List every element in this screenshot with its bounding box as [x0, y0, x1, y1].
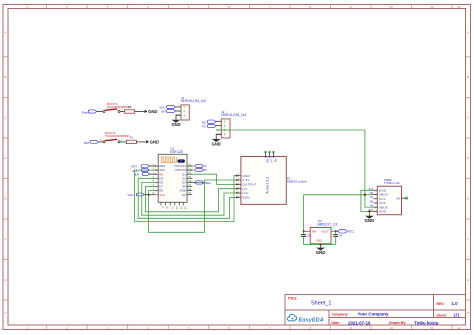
capacitor C4 [333, 231, 342, 244]
connector J2 HDR-M-2.54_1x4 [216, 110, 246, 138]
svg-text:F: F [5, 237, 7, 241]
junction dot VOUT [335, 230, 337, 232]
svg-text:VOUT: VOUT [321, 229, 329, 233]
svg-text:GND: GND [316, 239, 322, 243]
svg-text:12: 12 [457, 326, 461, 330]
svg-text:TS434303000550R: TS434303000550R [106, 105, 130, 109]
svg-text:10: 10 [390, 5, 394, 9]
junction dot VBUS [364, 194, 366, 196]
svg-text:AMS1117_3.3: AMS1117_3.3 [318, 223, 338, 227]
svg-text:AD8232 module: AD8232 module [287, 180, 308, 184]
svg-text:12: 12 [457, 5, 461, 9]
svg-text:REV:: REV: [437, 302, 445, 306]
resistor R2 [125, 106, 135, 113]
net flag VCC (ESP) [127, 193, 155, 197]
company cell [332, 312, 389, 317]
wire J1 pin3 to ground [176, 115, 181, 119]
wire VCC rail to 3.3V [149, 180, 237, 232]
svg-text:VCC: VCC [347, 230, 355, 234]
svg-text:Flash: Flash [203, 181, 211, 185]
ground GND (flag right) [146, 139, 159, 144]
wire USB GND loop [361, 190, 374, 211]
svg-text:E: E [467, 197, 469, 201]
wire IO16 rail [138, 178, 236, 218]
net flag TX [202, 124, 216, 128]
svg-text:B: B [4, 75, 6, 79]
svg-text:2021-07-16: 2021-07-16 [348, 320, 371, 325]
net flag ADC (ESP) [132, 169, 149, 173]
svg-text:EasyEDA: EasyEDA [299, 317, 324, 323]
svg-text:GND: GND [316, 250, 326, 255]
svg-text:SH: SH [396, 197, 400, 200]
wire [120, 111, 125, 113]
svg-text:RX: RX [203, 168, 207, 172]
wire [120, 141, 126, 143]
ground below regulator [316, 246, 326, 255]
svg-text:Company:: Company: [332, 313, 349, 317]
svg-text:1.0: 1.0 [452, 301, 459, 306]
net flag VCC (output) [338, 230, 355, 234]
module P1 AD8232 [236, 151, 308, 204]
svg-text:Your Company: Your Company [358, 312, 389, 317]
wire [97, 111, 103, 113]
svg-text:EN: EN [135, 173, 139, 177]
sheet cell [437, 313, 461, 318]
junction dot VIN [303, 230, 305, 232]
svg-text:HDR-M-2.54_1x3: HDR-M-2.54_1x3 [181, 99, 206, 103]
svg-text:11: 11 [430, 5, 433, 9]
svg-text:LA: LA [270, 159, 274, 163]
capacitor C5 [301, 231, 310, 244]
title text [288, 296, 332, 306]
svg-text:D0: D0 [182, 193, 186, 197]
svg-text:Sheet:: Sheet: [437, 314, 447, 318]
ground GND (flag right) [145, 109, 158, 114]
svg-text:GND: GND [150, 139, 159, 144]
EasyEDA logo [288, 314, 324, 323]
net flag EN [162, 109, 176, 113]
wire [135, 111, 145, 113]
switch BOOT2 [100, 102, 130, 112]
svg-text:HDR-M-2.54_1x4: HDR-M-2.54_1x4 [221, 113, 246, 117]
svg-text:VCC: VCC [159, 193, 165, 197]
wire VOUT [331, 230, 338, 232]
net flag RX [194, 168, 207, 172]
svg-text:TITLE:: TITLE: [288, 296, 298, 300]
title block [285, 295, 466, 326]
svg-text:TS434303000550R: TS434303000550R [105, 134, 129, 138]
regulator U3 AMS1117_3.3 [310, 219, 337, 244]
wire staircase ESP to AD8232 OUTPUT [192, 174, 236, 184]
svg-text:SDN: SDN [242, 195, 249, 199]
wire USB VBUS link [365, 195, 374, 207]
junction dot VCC [148, 194, 150, 196]
svg-text:Tinku kosta: Tinku kosta [414, 320, 439, 325]
module U1 ESP-12E [153, 147, 193, 210]
switch BOOT1 [100, 131, 129, 143]
net flag VCC [159, 105, 175, 109]
net flag Flash [192, 181, 211, 185]
net flag TX [194, 164, 206, 168]
wire ground rail under regulator [304, 244, 336, 247]
svg-text:GND: GND [365, 218, 375, 223]
ground below J2 [212, 138, 221, 147]
svg-text:TYPE-C-AF: TYPE-C-AF [384, 181, 400, 185]
svg-text:Date:: Date: [332, 321, 341, 325]
pin end dots [155, 165, 193, 183]
net flag RST (ESP) [131, 165, 155, 169]
svg-text:11: 11 [430, 326, 433, 330]
svg-text:RL: RL [274, 159, 278, 163]
svg-text:Drawn By:: Drawn By: [389, 321, 406, 325]
svg-text:H: H [467, 311, 469, 315]
connector J1 HDR-M-2.54_1x3 [176, 96, 207, 120]
wire VBUS feed (USB to VIN) [304, 195, 365, 232]
net flag Flash [82, 110, 97, 114]
svg-text:1/1: 1/1 [454, 313, 461, 318]
wire J2 pin4 to ground [216, 134, 221, 138]
wire [136, 141, 146, 143]
svg-text:A: A [4, 31, 6, 35]
svg-text:GND: GND [379, 210, 387, 214]
svg-text:A: A [467, 31, 469, 35]
junction dot USB gnd [368, 210, 370, 212]
svg-text:B: B [467, 75, 469, 79]
wire USB GND stem [368, 211, 370, 215]
svg-text:Sheet_1: Sheet_1 [311, 301, 332, 307]
junction dot reg gnd [320, 244, 322, 246]
svg-text:GND: GND [212, 141, 221, 146]
svg-text:RA: RA [266, 159, 270, 163]
svg-text:TX: TX [202, 125, 206, 129]
ground below USB [365, 215, 375, 224]
resistor R1 [126, 136, 136, 143]
svg-text:10: 10 [390, 326, 394, 330]
svg-text:VIN: VIN [312, 229, 317, 233]
svg-text:F: F [467, 237, 469, 241]
svg-text:GND: GND [148, 109, 157, 114]
wire ADC row left-down rail [135, 170, 237, 221]
svg-text:H: H [4, 311, 6, 315]
wire [99, 141, 103, 143]
net flag RX [202, 120, 216, 124]
wire J2 pin3 to USB VBUS (long) [216, 130, 365, 195]
svg-text:EN: EN [162, 110, 166, 114]
svg-text:ESP-12E: ESP-12E [170, 150, 183, 154]
wire IO12 rail [145, 187, 236, 212]
svg-text:GND: GND [171, 122, 180, 127]
date cell [332, 320, 439, 325]
svg-text:RST: RST [84, 141, 90, 145]
ground below J1 [171, 119, 180, 128]
svg-text:VCC: VCC [127, 193, 134, 197]
net flag EN (ESP) [135, 172, 156, 176]
svg-text:E: E [4, 197, 6, 201]
svg-text:Ad8232: Ad8232 [266, 176, 270, 194]
wire IO14 rail [142, 182, 237, 215]
REV cell [437, 301, 459, 306]
net flag RST [84, 140, 99, 145]
connector USB2 TYPE-C-AF [369, 178, 408, 215]
